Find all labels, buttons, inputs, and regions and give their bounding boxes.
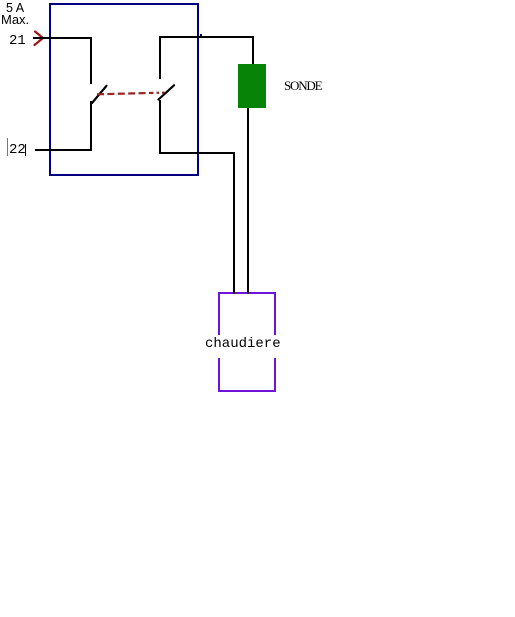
wire: sonde bottom to chaudiere xyxy=(247,108,249,294)
cursor bar right of 22 xyxy=(25,144,26,156)
wire: left switch top stub xyxy=(90,37,92,84)
label 5 A xyxy=(6,2,24,15)
label SONDE xyxy=(284,79,321,92)
wire: right switch top stub xyxy=(159,36,161,79)
wire: top-right horizontal to sonde xyxy=(159,36,254,38)
wire: bottom horizontal to chaudiere xyxy=(159,152,235,154)
red dashed mechanical link between switches xyxy=(96,90,166,97)
wire: vertical down to chaudiere (left) xyxy=(233,152,235,294)
chaudiere box (purple) xyxy=(218,292,276,392)
wire end over border (right) xyxy=(247,292,249,294)
red arrow (input 21) xyxy=(31,27,49,49)
right switch blade S2 xyxy=(157,81,179,105)
wire: vertical into sonde top xyxy=(252,36,254,65)
sonde body (green block) xyxy=(238,64,266,108)
wire end over border (left) xyxy=(233,292,235,294)
wire: right switch bottom stub xyxy=(159,100,161,153)
junction tick on top wire xyxy=(200,34,202,36)
label Max. xyxy=(1,13,29,26)
wire: bottom-left horizontal (22) xyxy=(35,149,92,151)
label 21 xyxy=(9,34,26,48)
wire: left switch bottom stub xyxy=(90,101,92,150)
blue box (relay/thermostat outline) xyxy=(49,3,199,176)
label 22 xyxy=(9,143,26,157)
cursor bar left of 22 xyxy=(7,138,8,156)
white knockout for chaudiere label xyxy=(206,335,279,358)
wire: 21 lead-in horizontal xyxy=(33,37,92,39)
left switch blade S1 xyxy=(88,82,110,106)
label chaudiere xyxy=(205,337,281,351)
